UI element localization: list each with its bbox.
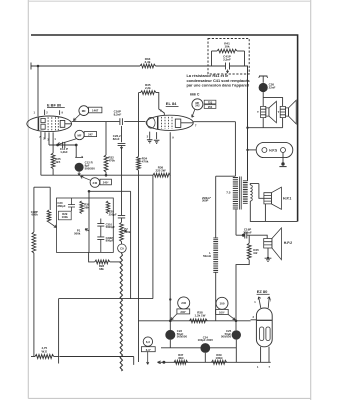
voltage callout LW box <box>141 347 155 352</box>
voltage callout 100 circle <box>216 297 228 309</box>
svg-text:753: 753 <box>208 100 213 104</box>
svg-text:500k: 500k <box>74 232 81 236</box>
resistor R39 body <box>212 360 227 364</box>
label R33 3.3k <box>145 57 151 64</box>
resistor R41 <box>212 50 218 52</box>
transformer T1 box <box>261 106 266 117</box>
label C30 360pF <box>57 201 65 208</box>
junction return bus dot <box>169 298 171 300</box>
wire mains line to P2 jag <box>60 357 134 365</box>
transformer TR primary <box>233 178 238 209</box>
capacitor C30 <box>68 198 75 211</box>
junction HT at V1 line <box>37 65 40 68</box>
transformer T2 box <box>280 106 285 117</box>
wire C23 bottom <box>169 340 171 348</box>
wire HPS right pin down <box>282 153 284 164</box>
wire C25 bottom <box>235 340 237 363</box>
wire R35 left <box>139 93 141 157</box>
svg-text:240: 240 <box>181 301 186 305</box>
svg-text:100Ω: 100Ω <box>216 356 224 360</box>
svg-text:240: 240 <box>93 181 98 185</box>
capacitor C12R top bar <box>75 156 82 158</box>
box R29 label <box>58 211 71 220</box>
svg-text:800pF: 800pF <box>106 239 114 243</box>
tube V1 pin numbers top <box>0 0 1 1</box>
svg-text:470k: 470k <box>142 160 149 164</box>
tube V1 bottom pins <box>41 132 53 176</box>
arrow bottom bus left <box>158 361 161 364</box>
label R38 1.2k <box>195 310 206 317</box>
wire AVC to bottom <box>33 253 35 357</box>
wire R45 bottom return <box>236 260 249 321</box>
svg-text:247: 247 <box>88 133 93 137</box>
tube V1 grids <box>48 117 58 130</box>
svg-text:500/550: 500/550 <box>177 335 188 339</box>
svg-text:T: T <box>257 110 259 114</box>
wire C26.2 arrow <box>120 145 122 149</box>
label R32 470k <box>108 156 115 163</box>
ground HPS <box>281 162 284 165</box>
arrow P1 wiper <box>49 222 57 227</box>
test point MF3 boxes <box>204 100 216 104</box>
svg-text:82nF: 82nF <box>113 137 120 141</box>
arrow 100 to bus <box>228 314 235 320</box>
arrow 240b to bus <box>171 314 177 320</box>
tube V3 envelope <box>256 308 272 347</box>
note text replacement <box>187 73 250 88</box>
wire V2 plate pin7 <box>193 121 235 123</box>
wire C19P to HP2 <box>249 235 267 238</box>
svg-text:250pF: 250pF <box>109 212 117 216</box>
capacitor C25 dot <box>232 330 241 339</box>
wire C12R bottom arrow <box>78 172 80 176</box>
resistor R34 body <box>137 157 141 171</box>
capacitor C24 dot <box>200 343 210 353</box>
svg-text:100µF 200V: 100µF 200V <box>198 338 214 342</box>
capacitor C23 dot <box>165 330 175 340</box>
transformer TR core <box>239 177 241 210</box>
voltage callout 240b circle <box>178 297 190 309</box>
wire L1 top <box>215 176 217 238</box>
speaker HP1 driver <box>264 193 272 204</box>
tube V2 heater circle <box>147 117 155 128</box>
tube V1 top pin stubs <box>45 110 60 115</box>
arrow 240 to bus <box>81 176 91 180</box>
wire mid vertical to return <box>130 191 132 298</box>
svg-text:500k: 500k <box>124 230 131 234</box>
svg-text:3,3nF: 3,3nF <box>223 58 231 62</box>
potentiometer P2 track <box>120 222 124 241</box>
label C24 <box>198 335 214 342</box>
capacitor C9 circle <box>118 244 127 253</box>
speaker HP4 driver <box>285 108 288 116</box>
capacitor C310 <box>97 224 104 227</box>
label R30 56k <box>84 203 90 210</box>
label R34 470k <box>142 157 149 164</box>
capacitor C19P <box>242 234 245 237</box>
svg-text:1,2kF: 1,2kF <box>60 150 68 154</box>
junction block link <box>88 190 91 193</box>
page edge right fold <box>310 0 312 400</box>
junction HPS feed <box>246 149 248 151</box>
label R28 68k <box>99 264 105 271</box>
wire R32 top <box>105 122 107 155</box>
capacitor C41 tap arrow <box>226 70 228 73</box>
voltage callout LW circle <box>143 337 152 346</box>
speaker HP3 driver <box>266 108 269 116</box>
label R35 2.2k <box>145 83 151 90</box>
tube V1 cathode bar <box>37 118 39 131</box>
label R25 4k5 <box>55 157 61 164</box>
label R mains <box>41 346 47 353</box>
capacitor C14P <box>63 142 65 148</box>
svg-text:10k: 10k <box>224 45 229 49</box>
resistor R25 <box>52 145 54 153</box>
wire transformer secondary bottom <box>235 210 237 236</box>
wire AVC corner <box>34 187 50 210</box>
svg-text:30Ω: 30Ω <box>178 356 184 360</box>
resistor R27 body <box>47 210 51 222</box>
label C41P 3.3nF <box>223 55 231 62</box>
wire R35 right lead to grid <box>156 93 164 116</box>
tube V1 cathode rects <box>41 118 45 129</box>
wire AVC left drop <box>33 187 35 232</box>
resistor R24 body <box>32 232 36 253</box>
label C28 250pF <box>109 209 117 216</box>
wire cathode node line <box>49 144 76 146</box>
junction cathode dot A <box>56 144 59 147</box>
label C14P 1.2k <box>60 147 68 154</box>
arrow MF2 to cathode node <box>58 139 77 145</box>
resistor R36 body <box>153 173 170 177</box>
svg-text:6,3°: 6,3° <box>146 348 152 352</box>
speaker HP4 horn <box>289 100 297 124</box>
junction cathode dot B <box>75 144 78 147</box>
resistor R41 body <box>217 49 237 53</box>
wire cathode bus <box>41 174 153 176</box>
svg-text:225 2W: 225 2W <box>155 169 165 173</box>
voltage callout 240b box <box>177 309 190 314</box>
resistor R45 <box>248 235 250 243</box>
wire caps branch <box>100 219 102 253</box>
tube V3 filament pin left <box>258 297 261 308</box>
tube V2 bottom pins <box>150 132 171 176</box>
wire R34 bottom long <box>138 170 140 362</box>
wire mid ground bus <box>161 347 236 349</box>
tube V2 envelope <box>146 115 193 130</box>
svg-text:par une connexion dans l’appa: par une connexion dans l’appareil <box>187 83 250 88</box>
test point MF1 circle <box>79 106 89 116</box>
wire top HT+ bus <box>31 35 298 221</box>
voltage callout 100 box <box>216 309 229 314</box>
label C12R <box>85 161 96 171</box>
svg-text:68k: 68k <box>99 267 104 271</box>
label C26.2 82nF <box>113 134 121 141</box>
label C38P 680 <box>31 210 38 217</box>
svg-text:252: 252 <box>208 105 213 109</box>
wire R41 left drop <box>211 51 213 66</box>
ground HP2 <box>265 258 272 261</box>
wire grid line to C28 <box>121 149 123 216</box>
label C19P 220nF <box>243 227 252 234</box>
svg-text:22nF: 22nF <box>269 86 276 90</box>
wire P2 to C9 <box>121 242 123 245</box>
svg-text:680k: 680k <box>32 213 39 217</box>
wire V1 top pin from HT <box>37 66 39 116</box>
potentiometer P1 track <box>88 198 90 252</box>
wire C23 top <box>169 321 171 330</box>
label L1 50mH <box>203 251 211 258</box>
resistor R33 <box>140 64 156 68</box>
wire mains bus right <box>58 356 60 358</box>
resistor R28 body <box>95 260 110 264</box>
label C23 <box>177 329 188 339</box>
svg-text:T: T <box>278 110 280 114</box>
wire mains right lead <box>54 356 59 358</box>
dashed box around R41 C41 <box>208 39 249 75</box>
inductor L1 <box>213 238 218 272</box>
wire R41 right drop <box>244 51 246 66</box>
resistor R mains body <box>35 355 54 359</box>
tube V3 anode left <box>260 327 264 341</box>
svg-text:MF: MF <box>77 133 81 137</box>
potentiometer P2 body <box>121 218 123 222</box>
svg-text:H.P.S: H.P.S <box>269 149 277 153</box>
tube V1 envelope <box>27 116 72 132</box>
label C310 5000pF <box>106 222 116 229</box>
voltage callout 240 circle <box>90 178 100 188</box>
label C16P 8.2nF <box>114 109 122 116</box>
wire HT line right segment <box>156 65 212 67</box>
label C26 <box>269 83 276 90</box>
svg-text:100: 100 <box>220 302 225 306</box>
svg-text:Ω2: Ω2 <box>253 251 257 255</box>
wire block top right link <box>89 191 131 198</box>
wire secondary to HP1 <box>250 184 264 199</box>
tube V2 cathode bar <box>157 117 159 129</box>
label P1 500k <box>74 229 81 236</box>
resistor R37 body <box>174 360 188 364</box>
ground V2 cathode 2 <box>154 140 160 143</box>
wire bottom bus <box>158 361 271 363</box>
tube V3 bottom pins <box>261 347 269 363</box>
label R39 100 <box>216 353 224 360</box>
junction bottom bus dot <box>162 361 165 364</box>
wire C25 top <box>235 321 237 331</box>
wire cathode return drop <box>58 299 60 364</box>
resistor R31 body <box>106 201 110 214</box>
socket HPS left pin <box>262 148 267 153</box>
inductor TR tertiary loops <box>250 184 252 201</box>
wire HT line left segment <box>31 63 140 70</box>
capacitor C29M <box>97 237 104 240</box>
wire C26 to T1 <box>262 92 264 106</box>
resistor R38 body <box>190 319 208 323</box>
arrow LW lead down <box>147 352 149 365</box>
wire V3 side pin3 <box>251 319 257 321</box>
svg-text:3,3k: 3,3k <box>145 60 151 64</box>
resistor R32 body <box>104 155 108 172</box>
potentiometer P2 wiper <box>122 230 128 232</box>
voltage callout 240 box <box>100 179 111 185</box>
svg-text:500/550: 500/550 <box>221 335 232 339</box>
svg-text:4k5: 4k5 <box>55 160 60 164</box>
svg-text:W.G: W.G <box>41 349 47 353</box>
capacitor C26 dot <box>259 83 268 92</box>
capacitor C16P <box>120 118 123 125</box>
wire T1 bottom drop <box>262 118 264 128</box>
junction speakers bottom <box>246 127 248 129</box>
wire HP2 down <box>267 248 269 258</box>
page edge left <box>27 0 29 399</box>
svg-text:50mH: 50mH <box>203 254 211 258</box>
potentiometer P1 wiper <box>85 229 89 231</box>
wire C12R top <box>75 145 77 156</box>
capacitor C12R dot <box>75 163 84 172</box>
speaker HP3 horn <box>269 101 277 123</box>
svg-text:240°: 240° <box>180 310 187 314</box>
wire mains to jag <box>59 356 60 358</box>
wire L1 bottom <box>215 272 217 321</box>
resistor R35 body <box>141 91 157 95</box>
svg-text:100k: 100k <box>62 215 69 219</box>
svg-text:C9: C9 <box>120 247 124 251</box>
wire cathode drop <box>149 139 151 140</box>
test point MF2 circle <box>75 130 84 139</box>
label R36 225 <box>155 166 165 173</box>
wire R25 bottom <box>52 169 54 176</box>
wire dashed-box to main right line <box>245 66 248 181</box>
label C25 <box>221 329 232 339</box>
svg-text:H.P.1: H.P.1 <box>283 197 291 201</box>
wire cathode return bus <box>59 298 153 300</box>
wire C9 down jagged <box>120 253 122 371</box>
wire speaker pair top link <box>263 98 282 107</box>
svg-text:666 C: 666 C <box>190 92 200 96</box>
wire to HPS <box>248 149 257 151</box>
wire HP1 driver down <box>264 204 266 222</box>
svg-text:EZ 80: EZ 80 <box>257 289 268 294</box>
svg-text:1,2k 1W: 1,2k 1W <box>195 313 206 317</box>
test point MF1 box <box>89 107 102 113</box>
svg-text:242: 242 <box>195 104 200 108</box>
box P network outline <box>57 198 114 252</box>
svg-text:1467: 1467 <box>92 109 99 113</box>
wire R28 left lead <box>89 252 95 262</box>
test point MF2 box <box>84 132 96 137</box>
wire screen drop left <box>152 175 154 298</box>
label C29M 800pF <box>106 236 114 243</box>
wire transformer top branch <box>216 175 236 177</box>
arrow MF1 to anode <box>73 114 80 121</box>
svg-text:500/550: 500/550 <box>85 166 96 170</box>
test point MF3 circle <box>192 99 203 110</box>
svg-text:7.5: 7.5 <box>226 191 231 195</box>
wire R28 right lead <box>110 261 122 263</box>
resistor R45 body <box>247 243 251 260</box>
svg-text:360pF: 360pF <box>57 204 65 208</box>
wire R32 bottom <box>105 172 107 175</box>
wire R41 right lead <box>237 50 245 52</box>
wire C24 stub <box>204 353 206 362</box>
svg-text:100°: 100° <box>219 310 226 314</box>
svg-text:2,2k: 2,2k <box>145 86 151 90</box>
svg-text:300P: 300P <box>202 199 209 203</box>
tube V1 anode <box>60 120 71 127</box>
wire grid branch <box>121 126 123 142</box>
speaker HP2 horn <box>272 228 282 260</box>
junction heater at x236 <box>235 320 238 323</box>
speaker HP1 horn <box>271 187 281 209</box>
wire R36 right vertical <box>169 175 171 321</box>
resistor R25 body <box>51 153 55 169</box>
tube V3 anode right <box>266 327 270 341</box>
socket HPS outline <box>256 142 293 157</box>
page edge top <box>28 0 310 2</box>
svg-text:6,3: 6,3 <box>146 340 150 344</box>
svg-text:EL 84: EL 84 <box>166 101 177 106</box>
label transformer spec <box>202 196 212 203</box>
svg-text:240°: 240° <box>103 181 110 185</box>
tube V3 filament bar <box>257 319 272 321</box>
wire mains left lead <box>31 356 35 358</box>
ground V2 cathode 1 <box>147 140 153 143</box>
junction heater at R36 <box>169 320 172 323</box>
tube V2 anode <box>175 119 193 127</box>
junction R32 at bus <box>105 174 108 177</box>
svg-text:5000pF: 5000pF <box>106 225 116 229</box>
svg-text:H.P.2: H.P.2 <box>284 241 292 245</box>
svg-text:MF: MF <box>82 109 86 113</box>
tube V3 filament pin right <box>268 297 271 308</box>
wire heater bus <box>139 320 251 322</box>
wire HP1 loop <box>250 201 297 221</box>
resistor R30 body <box>80 201 84 214</box>
label P2 500k <box>124 227 131 234</box>
arrow MF3 to pin <box>192 110 195 118</box>
node plate tap symbol <box>259 76 268 83</box>
label R41 10k <box>224 42 230 49</box>
speaker HP2 driver <box>264 239 272 249</box>
svg-text:8,2nF: 8,2nF <box>114 112 122 116</box>
socket HPS right pin <box>281 148 286 153</box>
wire speaker pair bottom bus <box>248 127 283 129</box>
label R37 30 <box>178 353 184 360</box>
transformer TR secondary <box>243 181 248 204</box>
tube V2 grids <box>162 117 173 129</box>
wire EL84 plate to transformer <box>234 122 236 177</box>
svg-text:E BF 80: E BF 80 <box>47 102 61 107</box>
label R45 <box>253 248 259 255</box>
capacitor C28 <box>118 215 125 218</box>
capacitor C26.2 <box>118 143 126 145</box>
svg-text:470k: 470k <box>108 159 115 163</box>
wire plate coupling line <box>72 121 146 123</box>
page edge bottom <box>28 397 310 399</box>
wire T2 bottom drop <box>282 118 284 128</box>
capacitor C41 <box>212 63 245 70</box>
